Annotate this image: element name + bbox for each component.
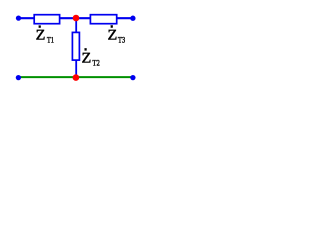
svg-text:T2: T2 bbox=[92, 59, 99, 68]
svg-text:T3: T3 bbox=[118, 36, 125, 45]
svg-text:T1: T1 bbox=[47, 36, 54, 45]
svg-text:Z: Z bbox=[36, 28, 46, 44]
svg-text:Z: Z bbox=[82, 51, 92, 67]
svg-text:Z: Z bbox=[108, 28, 118, 44]
